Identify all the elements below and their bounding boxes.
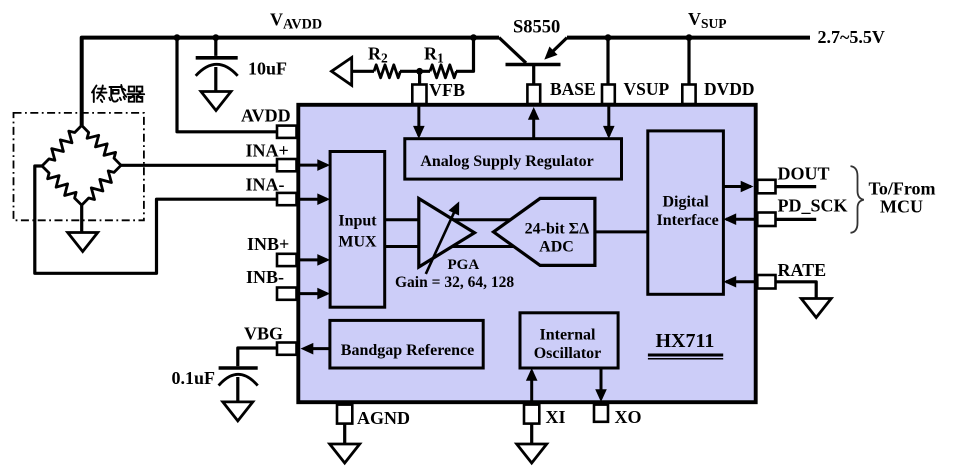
svg-text:AGND: AGND [357,408,410,428]
svg-text:Analog Supply Regulator: Analog Supply Regulator [420,153,593,170]
svg-text:VAVDD: VAVDD [270,10,322,33]
svg-text:Gain = 32, 64, 128: Gain = 32, 64, 128 [395,274,514,291]
svg-text:24-bit ΣΔ: 24-bit ΣΔ [525,220,590,237]
svg-text:AVDD: AVDD [241,106,291,126]
svg-text:INB+: INB+ [247,234,289,254]
svg-text:MUX: MUX [338,234,377,251]
svg-text:VFB: VFB [429,80,465,100]
svg-text:HX711: HX711 [656,330,715,352]
svg-text:2.7~5.5V: 2.7~5.5V [818,27,885,47]
svg-text:VSUP: VSUP [688,9,727,31]
svg-text:ADC: ADC [539,239,574,256]
svg-text:Input: Input [338,213,377,230]
svg-text:Internal: Internal [540,327,597,344]
svg-text:DVDD: DVDD [704,79,755,99]
svg-text:To/From: To/From [869,178,936,198]
svg-text:INA-: INA- [246,175,285,195]
svg-text:Bandgap Reference: Bandgap Reference [341,342,474,359]
svg-text:VBG: VBG [244,324,283,344]
svg-text:XI: XI [546,407,566,427]
svg-text:S8550: S8550 [513,18,560,38]
svg-text:Interface: Interface [657,212,719,229]
svg-text:10uF: 10uF [248,59,287,79]
svg-text:INA+: INA+ [246,141,289,161]
svg-text:VSUP: VSUP [624,79,670,99]
svg-text:Oscillator: Oscillator [534,345,602,362]
svg-text:INB-: INB- [246,267,284,287]
svg-text:RATE: RATE [778,260,827,280]
svg-text:Digital: Digital [662,193,709,210]
svg-text:MCU: MCU [880,197,923,217]
svg-text:DOUT: DOUT [778,164,830,184]
svg-text:BASE: BASE [550,79,596,99]
svg-text:R2: R2 [368,44,388,66]
svg-text:XO: XO [615,407,642,427]
svg-text:PD_SCK: PD_SCK [778,196,848,216]
svg-text:R1: R1 [424,44,444,66]
svg-text:PGA: PGA [448,257,480,273]
svg-text:0.1uF: 0.1uF [172,368,216,388]
